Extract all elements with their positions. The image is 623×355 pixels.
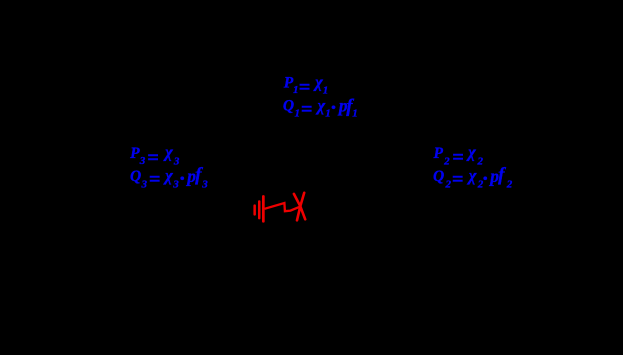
svg-text:1: 1 (293, 84, 299, 96)
fault marker X stroke 1 (294, 194, 305, 219)
bus3 Q label: Q3 = chi3*pf3 (130, 165, 208, 191)
svg-text:χ: χ (313, 72, 323, 91)
svg-text:χ: χ (163, 143, 173, 162)
ground symbol long bar (262, 195, 265, 223)
svg-text:χ: χ (466, 143, 476, 162)
svg-text:χ: χ (316, 96, 326, 115)
svg-text:f: f (498, 165, 506, 186)
svg-text:3: 3 (139, 155, 146, 167)
bus3 P label: P3 = chi3 (130, 143, 180, 170)
svg-text:=: = (301, 98, 312, 120)
svg-text:=: = (452, 169, 463, 191)
svg-text:χ: χ (467, 166, 477, 185)
svg-text:2: 2 (506, 179, 513, 191)
svg-text:P: P (130, 145, 140, 162)
svg-text:1: 1 (325, 108, 331, 120)
svg-text:1: 1 (295, 108, 301, 120)
svg-text:•: • (180, 171, 185, 186)
svg-text:3: 3 (172, 179, 179, 191)
ground symbol medium bar (258, 200, 261, 219)
svg-text:Q: Q (283, 98, 294, 115)
bus1 Q label: Q1 = chi1*pf1 (283, 96, 358, 121)
svg-text:3: 3 (173, 156, 180, 168)
svg-text:•: • (331, 100, 336, 115)
svg-text:=: = (452, 147, 463, 169)
svg-text:3: 3 (141, 179, 148, 191)
svg-text:2: 2 (477, 156, 484, 168)
bus2 Q label: Q2 = chi2*pf2 (433, 165, 513, 191)
bus1 P label: P1 = chi1 (284, 72, 328, 98)
bus2 P label: P2 = chi2 (434, 143, 484, 169)
svg-text:•: • (483, 171, 488, 186)
svg-text:=: = (147, 147, 158, 169)
svg-text:=: = (299, 77, 310, 99)
svg-text:2: 2 (445, 179, 452, 191)
svg-text:3: 3 (201, 179, 208, 191)
svg-text:Q: Q (433, 168, 444, 185)
svg-text:P: P (434, 145, 444, 162)
svg-text:χ: χ (163, 166, 173, 185)
svg-text:1: 1 (323, 85, 329, 97)
fault marker X stroke 2 (297, 193, 304, 221)
svg-text:Q: Q (130, 168, 141, 185)
wire from ground symbol to fault point (265, 203, 301, 211)
svg-text:2: 2 (443, 156, 450, 168)
svg-text:=: = (149, 169, 160, 191)
svg-text:1: 1 (352, 108, 358, 120)
ground symbol short bar (253, 204, 256, 215)
